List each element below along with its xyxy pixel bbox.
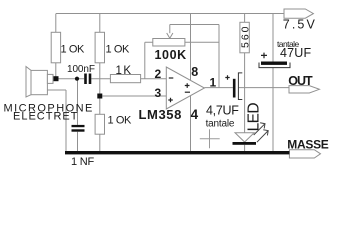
svg-text:1K: 1K — [116, 65, 133, 77]
svg-text:tantale: tantale — [277, 39, 299, 49]
svg-text:7.5V: 7.5V — [283, 17, 317, 31]
svg-text:tantale: tantale — [206, 118, 235, 129]
svg-text:560: 560 — [240, 24, 252, 48]
svg-text:LM358: LM358 — [139, 107, 182, 122]
svg-text:LED: LED — [245, 103, 262, 132]
svg-text:4: 4 — [191, 107, 199, 122]
svg-text:100nF: 100nF — [67, 64, 95, 75]
svg-text:3: 3 — [155, 86, 162, 100]
svg-text:1 OK: 1 OK — [106, 43, 131, 55]
svg-text:8: 8 — [191, 65, 198, 79]
svg-text:1 OK: 1 OK — [108, 115, 133, 127]
svg-text:MASSE: MASSE — [287, 138, 328, 152]
svg-text:ELECTRET: ELECTRET — [13, 111, 78, 123]
svg-text:1: 1 — [210, 76, 217, 90]
svg-text:OUT: OUT — [288, 74, 313, 88]
svg-text:100K: 100K — [155, 48, 187, 62]
svg-text:1 NF: 1 NF — [71, 156, 95, 168]
svg-text:2: 2 — [155, 67, 162, 81]
svg-text:4,7UF: 4,7UF — [206, 104, 239, 118]
svg-text:1 OK: 1 OK — [61, 43, 86, 55]
